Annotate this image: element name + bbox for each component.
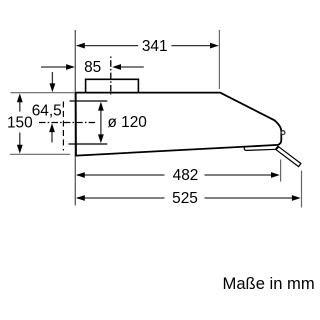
svg-text:85: 85	[84, 59, 101, 76]
dimension 341 line	[76, 43, 219, 49]
label o 120	[108, 114, 147, 131]
dimension 482 extension line right	[280, 160, 282, 182]
front lip / handle bar	[244, 147, 278, 151]
svg-text:64,5: 64,5	[32, 102, 62, 119]
outlet cylinder bottom line	[69, 143, 108, 145]
dimension 525 extension line right	[301, 171, 303, 208]
hood body outline	[76, 93, 282, 156]
dimension 150 line	[17, 93, 23, 153]
svg-text:482: 482	[173, 167, 199, 184]
dimension 64,5 up arrow	[49, 123, 55, 142]
dimension 482 line	[76, 172, 280, 178]
extension line top-left (hood top, thin, to the left)	[11, 92, 75, 94]
outlet cylinder top line	[70, 100, 108, 102]
dimension o120 double arrow	[98, 102, 104, 143]
svg-text:150: 150	[7, 114, 33, 131]
label 85	[84, 59, 101, 76]
svg-text:Maße in mm: Maße in mm	[223, 274, 315, 293]
label 64,5	[32, 102, 62, 119]
extension line bottom-left (hood bottom, thin, to the left)	[10, 153, 70, 155]
knob on right edge	[281, 131, 285, 135]
duct centerline vertical (dash-dot)	[110, 57, 112, 95]
dimension 341 extension line right	[218, 30, 220, 89]
label 482	[173, 167, 199, 184]
svg-text:ø 120: ø 120	[108, 114, 147, 131]
dimension 64,5 down arrow	[50, 72, 56, 92]
label 150	[7, 114, 33, 131]
caption Masse in mm	[223, 274, 315, 293]
wall line (vertical reference at left)	[74, 30, 76, 206]
dimension 85 line	[41, 64, 144, 70]
dimension 525 line	[76, 195, 301, 201]
outlet hidden end (dashed)	[62, 102, 64, 151]
power cord	[276, 146, 301, 166]
duct stub on top	[86, 79, 139, 92]
svg-text:341: 341	[142, 38, 168, 55]
label 525	[172, 190, 198, 207]
outlet centerline horizontal (dash-dot)	[39, 122, 97, 124]
svg-text:525: 525	[172, 190, 198, 207]
label 341	[142, 38, 168, 55]
